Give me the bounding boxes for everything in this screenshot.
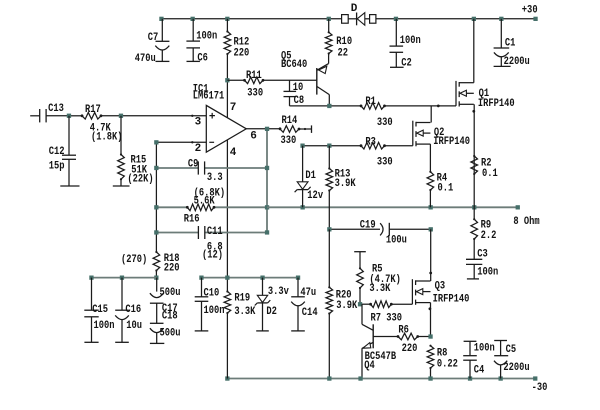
- svg-text:100n: 100n: [94, 320, 115, 332]
- svg-text:C1: C1: [505, 37, 516, 49]
- svg-text:R12: R12: [234, 36, 250, 48]
- svg-text:330: 330: [247, 88, 263, 100]
- svg-text:(1.8K): (1.8K): [91, 131, 123, 143]
- svg-text:D1: D1: [305, 170, 316, 182]
- svg-text:C2: C2: [401, 57, 412, 69]
- svg-text:3.3K: 3.3K: [369, 283, 390, 295]
- svg-text:100n: 100n: [204, 305, 225, 317]
- svg-text:15p: 15p: [49, 161, 65, 173]
- svg-text:7: 7: [230, 102, 237, 114]
- svg-text:(12): (12): [202, 249, 223, 261]
- svg-text:IRFP140: IRFP140: [478, 98, 515, 110]
- svg-text:D: D: [351, 3, 358, 15]
- svg-text:C16: C16: [125, 304, 141, 316]
- svg-text:C4: C4: [474, 364, 485, 376]
- svg-text:500u: 500u: [160, 287, 181, 299]
- svg-text:3.3v: 3.3v: [268, 286, 289, 298]
- svg-text:2: 2: [195, 143, 202, 155]
- svg-text:3.9K: 3.9K: [335, 178, 356, 190]
- svg-text:BC640: BC640: [281, 59, 307, 71]
- svg-text:100n: 100n: [196, 31, 217, 43]
- svg-text:R1: R1: [365, 96, 376, 108]
- svg-text:+30: +30: [522, 5, 538, 17]
- svg-text:R6: R6: [398, 325, 409, 337]
- svg-text:0.22: 0.22: [437, 358, 458, 370]
- svg-text:10u: 10u: [126, 320, 142, 332]
- svg-text:Q4: Q4: [364, 360, 375, 372]
- svg-text:22: 22: [338, 47, 349, 59]
- svg-text:R10: R10: [336, 36, 352, 48]
- svg-text:C19: C19: [360, 219, 376, 231]
- svg-text:C18: C18: [162, 311, 178, 323]
- svg-text:C14: C14: [302, 307, 318, 319]
- svg-text:C8: C8: [294, 95, 305, 107]
- svg-text:220: 220: [164, 263, 180, 275]
- svg-text:100u: 100u: [386, 234, 407, 246]
- svg-text:47u: 47u: [300, 287, 316, 299]
- svg-text:C7: C7: [148, 32, 159, 44]
- svg-text:C6: C6: [197, 53, 208, 65]
- svg-text:R14: R14: [282, 115, 298, 127]
- svg-text:330: 330: [377, 117, 393, 129]
- svg-text:IRFP140: IRFP140: [433, 293, 470, 305]
- svg-text:R11: R11: [246, 70, 262, 82]
- svg-text:100n: 100n: [477, 267, 498, 279]
- svg-text:IRFP140: IRFP140: [433, 136, 470, 148]
- svg-text:+: +: [209, 112, 216, 124]
- svg-text:6: 6: [250, 130, 257, 142]
- svg-text:5.6K: 5.6K: [194, 195, 215, 207]
- svg-text:C15: C15: [92, 304, 108, 316]
- svg-text:(270): (270): [121, 254, 147, 266]
- svg-text:R17: R17: [85, 104, 101, 116]
- svg-text:2.2: 2.2: [481, 230, 497, 242]
- svg-text:C9: C9: [188, 158, 199, 170]
- svg-text:2200u: 2200u: [503, 362, 529, 374]
- svg-text:4: 4: [230, 147, 237, 159]
- svg-text:220: 220: [234, 48, 250, 60]
- svg-text:0.1: 0.1: [438, 182, 454, 194]
- svg-text:220: 220: [402, 343, 418, 355]
- svg-text:C3: C3: [477, 249, 488, 261]
- svg-text:C11: C11: [207, 226, 223, 238]
- svg-text:C13: C13: [48, 103, 64, 115]
- svg-text:10: 10: [293, 82, 304, 94]
- svg-text:2200u: 2200u: [504, 56, 530, 68]
- svg-text:3.3: 3.3: [207, 172, 223, 184]
- svg-text:R19: R19: [234, 293, 250, 305]
- svg-text:C12: C12: [49, 146, 65, 158]
- svg-text:Q3: Q3: [435, 281, 446, 293]
- svg-text:C10: C10: [204, 287, 220, 299]
- svg-text:0.1: 0.1: [482, 168, 498, 180]
- svg-text:-30: -30: [532, 382, 548, 394]
- svg-text:R7 330: R7 330: [371, 313, 403, 325]
- svg-text:470u: 470u: [135, 53, 156, 65]
- svg-text:500u: 500u: [160, 328, 181, 340]
- svg-text:3.9K: 3.9K: [336, 300, 357, 312]
- svg-text:LM6171: LM6171: [193, 91, 225, 103]
- svg-text:C5: C5: [506, 344, 517, 356]
- svg-text:R3: R3: [365, 136, 376, 148]
- svg-text:(22K): (22K): [127, 174, 153, 186]
- svg-text:330: 330: [281, 135, 297, 147]
- svg-text:100n: 100n: [400, 35, 421, 47]
- svg-text:8 Ohm: 8 Ohm: [513, 216, 540, 228]
- svg-text:3: 3: [195, 117, 202, 129]
- svg-text:100n: 100n: [474, 343, 495, 355]
- svg-text:330: 330: [377, 157, 393, 169]
- svg-text:3.3K: 3.3K: [234, 306, 255, 318]
- svg-text:R16: R16: [184, 214, 200, 226]
- svg-text:12v: 12v: [307, 190, 323, 202]
- svg-text:D2: D2: [266, 306, 277, 318]
